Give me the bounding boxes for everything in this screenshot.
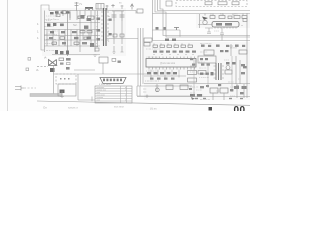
wire: center triple verticals: [138, 28, 143, 86]
wire: secondary verticals: [112, 11, 124, 44]
primary column wire a: [79, 11, 81, 53]
resistor R3: [87, 31, 92, 33]
transistor circle Q21: [226, 66, 230, 70]
table cell text: [97, 87, 128, 102]
switch S1 box: [58, 84, 76, 96]
speckle texture right of U3: [200, 20, 243, 33]
rectifier D10: [95, 48, 99, 51]
cluster R33: [220, 50, 229, 52]
socket resistor Rc: [232, 2, 239, 5]
scan tone veil PSU: [42, 8, 126, 56]
bottom border line 2 sloped: [37, 101, 250, 105]
node: rectifier grid hline 3: [44, 39, 96, 41]
blob row y24 b: [53, 23, 56, 26]
video amp arrow: [202, 17, 208, 21]
wire: U3 left lead: [198, 14, 212, 28]
below-IC resistor cluster row 1: [147, 72, 177, 74]
wire: Q1 emitter down: [53, 66, 55, 95]
svg-text:tA: tA: [36, 68, 39, 72]
capacitor C2: [112, 11, 117, 21]
wire: mid bus row: [44, 22, 100, 24]
AC plug P1: [15, 86, 24, 91]
svg-text:tA: tA: [44, 56, 47, 60]
bottom mid box divider: [139, 86, 141, 96]
regulator IC2: [99, 57, 108, 63]
photocoupler PC1: [112, 59, 116, 62]
resistor row R31: [153, 51, 196, 53]
wire: right vertical: [236, 56, 240, 84]
R21 cap I: [164, 27, 166, 30]
capacitor C7: [62, 42, 66, 44]
plus node mark: [111, 4, 114, 8]
U3 inner blocks: [216, 23, 232, 26]
resistor R1: [72, 31, 77, 33]
primary column comps: [81, 15, 95, 47]
wire: bus drops right: [205, 14, 243, 16]
node: rectifier grid hline 2: [44, 35, 100, 37]
resistor R6: [82, 42, 87, 44]
bottom mid box: [137, 86, 192, 96]
CRT socket dashed box: [176, 1, 247, 7]
snubber marks a: [113, 34, 117, 37]
wire: IC2 down: [102, 63, 104, 74]
transformer T1 primary core: [104, 8, 107, 46]
connector CN1 shell: [100, 78, 126, 84]
relay RL1 contacts: [98, 4, 101, 10]
nested bus wire 5: [153, 14, 251, 41]
nested bus wire 3: [158, 0, 251, 11]
T2 ticks: [214, 66, 225, 78]
scan tone veil right band: [144, 42, 250, 100]
bottom-right speck row: [189, 85, 243, 99]
fuse F1: [75, 2, 79, 11]
right cluster marks 2: [201, 64, 210, 66]
margin mark O8: [28, 58, 31, 61]
svg-text:x xx x: x xx x: [214, 31, 219, 33]
connector CN1 pins: [103, 79, 122, 82]
diode D3: [61, 31, 65, 33]
R21 cap X: [156, 27, 159, 30]
sub-board box right: [198, 56, 216, 63]
resistor R8: [66, 58, 71, 61]
bridge diode DB2: [56, 14, 60, 17]
U1 bottom pins: [149, 67, 195, 70]
resistor R4: [52, 42, 57, 44]
wire: right border vertical: [246, 13, 248, 98]
right cluster marks: [241, 64, 245, 74]
bottom-right resistor row: [190, 94, 202, 97]
right mark trio: [200, 72, 214, 75]
capacitor C9: [60, 63, 64, 65]
socket component symbol: [166, 1, 172, 6]
bottom mid star component: [155, 84, 159, 92]
R21 cap T: [174, 28, 179, 31]
degauss coil box dashed: [56, 74, 76, 84]
AC cord thick sleeve: [30, 94, 62, 97]
wire: secondary corner: [91, 46, 98, 48]
page dot: [209, 107, 213, 111]
resistor R40: [188, 71, 197, 75]
capacitor C9b: [67, 63, 71, 65]
secondary comps column: [97, 18, 112, 41]
wire: left outer bottom corner: [91, 97, 93, 102]
arrow speck on border: [191, 97, 195, 100]
degauss coil dots: [60, 78, 70, 80]
U3 pin ticks: [215, 27, 236, 29]
wire: bus end corner: [135, 11, 137, 14]
stray component left margin: [26, 68, 29, 71]
relay RL1 box: [96, 4, 104, 10]
nested bus wire 2: [155, 0, 250, 37]
capacitor C21: [220, 28, 224, 41]
switch S1 contact blob: [60, 90, 65, 94]
capacitor C8 electrolytic cluster: [55, 50, 69, 55]
junction box top center: [137, 9, 143, 13]
main IC U1 body: [146, 59, 196, 68]
R20 labels: [210, 14, 239, 16]
resistor R9: [66, 67, 70, 70]
socket resistor Rb: [218, 2, 227, 5]
diode D1: [78, 16, 84, 19]
speckle texture center-right upper: [146, 49, 207, 59]
blob row y24 c: [60, 24, 64, 27]
wire: drops from AC bus: [57, 11, 98, 48]
socket resistor Ra: [205, 2, 212, 5]
ground stub C3: [121, 46, 124, 52]
wire: lower bus of PSU: [52, 54, 100, 56]
svg-text:(I) xx: (I) xx: [150, 107, 157, 111]
resistor R40b: [188, 78, 197, 82]
table column lines: [121, 86, 127, 103]
speckle texture bottom right: [190, 66, 241, 101]
resistor R42: [225, 70, 232, 74]
resistor row above bus: R21: [152, 30, 180, 37]
table frame: [95, 86, 132, 103]
nested bus wire 4: [160, 0, 250, 36]
AC cord dashed: [24, 87, 36, 89]
right edge comp: [243, 19, 247, 22]
capacitor C20: [205, 28, 213, 34]
ground tick left: [94, 55, 97, 57]
svg-text:00: 00: [234, 105, 246, 111]
wire: left center drop: [74, 69, 95, 71]
thermistor TH1 dashed feed: [37, 65, 48, 67]
capacitor C1: [88, 16, 95, 19]
snubber marks b: [120, 34, 124, 37]
ground stub C2: [113, 46, 116, 54]
diode D4: [84, 37, 88, 39]
plus tick on border: [146, 95, 149, 99]
scan tone veil right top: [196, 14, 250, 28]
chassis box top edge: [78, 73, 150, 75]
capacitor C4: [49, 37, 53, 39]
label Q1 dark body: [50, 68, 55, 72]
capacitor C5: [60, 37, 65, 39]
extra right comps: [190, 58, 247, 94]
speckle texture PSU block: [45, 15, 110, 52]
wire: right quadrant verticals: [194, 56, 232, 96]
U1 top pins: [149, 57, 195, 59]
wire: mid hline to verticals: [106, 38, 138, 40]
arrow up symbol: [130, 4, 133, 10]
box B52: [144, 38, 152, 42]
varistor VR1: [106, 5, 109, 10]
transformer T1 winding ticks: [101, 12, 109, 40]
transistor circle Q20: [203, 20, 207, 24]
R31 label specks: [153, 54, 194, 56]
diode D2: [50, 31, 54, 33]
table row lines: [95, 89, 132, 102]
resistor R5: [74, 42, 79, 44]
box C2: [144, 43, 150, 47]
right cluster caps: [200, 58, 236, 65]
wire: schematic left border vertical: [41, 5, 49, 50]
bridge diode DB3: [62, 11, 66, 14]
bottom-right caps: [234, 86, 247, 89]
chassis box left edge: [77, 74, 79, 100]
transistor Q1: [49, 60, 57, 66]
speckle texture below IC: [146, 60, 234, 84]
R30 label specks: [153, 43, 190, 45]
extra right speckle: [196, 90, 203, 97]
node: rectifier grid hline 4: [44, 45, 100, 47]
bottom box Bb: [180, 85, 188, 90]
node: rectifier grid hline 1: [44, 29, 100, 31]
primary column wire b: [94, 11, 96, 53]
pump phi symbol: [155, 88, 159, 92]
chassis box bottom edge: [78, 99, 95, 101]
noise filter L1: [85, 8, 93, 10]
CRT IC U3 rounded box: [212, 22, 239, 28]
wire: IC pin drops: [151, 70, 179, 78]
resistor R34: [239, 50, 247, 54]
wire: bottom-right verticals: [213, 84, 244, 100]
filter blob row below bus: [55, 11, 69, 13]
resistor R2: [80, 31, 85, 33]
right dense: transformer T2 bars: [216, 63, 221, 80]
wire: grid verticals: [47, 30, 95, 47]
svg-text:7x: 7x: [79, 2, 83, 6]
bottom mid box text: [143, 89, 147, 94]
resistor R7: [59, 58, 64, 61]
nested bus wire 1: [153, 0, 251, 14]
border left margin rule: [7, 0, 9, 111]
wire: cap lead: [229, 44, 233, 56]
wire: below IC bus: [144, 76, 250, 84]
capacitor Cx tick: [121, 5, 124, 9]
bottom-right box pair: [210, 88, 228, 93]
PSU block left edge: [44, 11, 46, 53]
svg-text:Ox: Ox: [43, 106, 47, 110]
resistor R41: [198, 71, 206, 75]
capacitor C3: [120, 11, 125, 21]
blob row y24 a: [47, 24, 50, 27]
wire: cord junction cross: [60, 91, 64, 98]
wire: top AC bus: [49, 10, 136, 12]
component cluster at bend: [165, 39, 176, 42]
capacitor C11: [118, 61, 121, 63]
bridge diode DB1: [50, 12, 54, 14]
bottom box Ba: [166, 85, 173, 90]
wire: chassis top left stub: [54, 73, 79, 75]
svg-text:xxxxx x: xxxxx x: [68, 106, 78, 110]
resistor R20 row: [210, 16, 247, 19]
bottom border line 1: [137, 96, 250, 98]
capacitor C1b bars: [68, 11, 71, 57]
svg-text:xxx xxxx: xxx xxxx: [114, 106, 125, 109]
right comp row y45: [201, 45, 245, 48]
below-IC cluster row 2: [150, 78, 175, 80]
resistor row R30: [153, 45, 193, 47]
box right R32: [204, 50, 214, 55]
capacitor C6: [74, 37, 79, 39]
